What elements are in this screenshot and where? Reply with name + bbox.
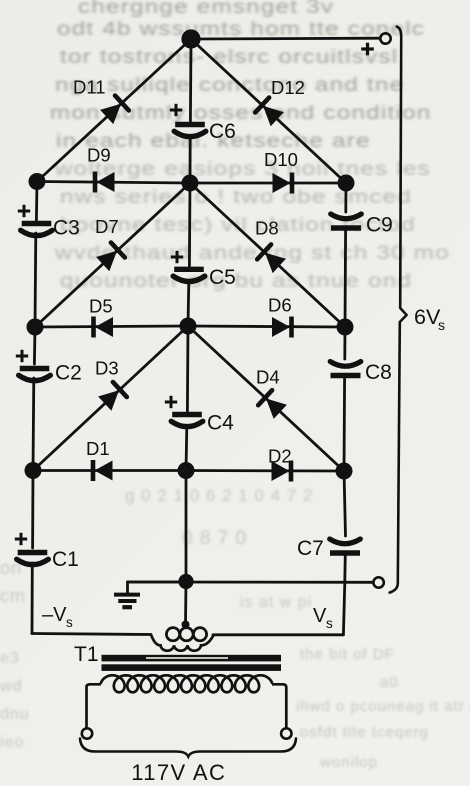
svg-text:D7: D7	[95, 216, 119, 237]
svg-text:T1: T1	[74, 643, 99, 666]
wire diagonal L1 to apex	[37, 39, 191, 182]
plus C3	[18, 210, 30, 213]
svg-text:D4: D4	[256, 367, 280, 388]
wire diagonal R1 to apex	[191, 39, 346, 183]
svg-text:C7: C7	[297, 537, 324, 560]
diode D8	[265, 253, 286, 273]
svg-text:D9: D9	[87, 145, 111, 166]
terminal Vs output	[373, 577, 383, 587]
wire centre column M3 to bottom node	[185, 471, 188, 582]
diode D10	[290, 173, 295, 194]
transformer core lower bar	[102, 664, 282, 671]
brace 6Vs	[390, 27, 407, 593]
plus C6	[170, 109, 182, 112]
node row3 left	[25, 462, 42, 479]
diode D4	[266, 399, 287, 419]
ground stub wire	[128, 581, 187, 584]
svg-text:s: s	[326, 616, 333, 631]
capacitor C1	[18, 550, 48, 555]
capacitor C2	[20, 366, 50, 371]
node bottom centre	[178, 574, 193, 589]
svg-text:C8: C8	[365, 361, 392, 384]
terminal primary right	[281, 728, 291, 738]
wire lower-left rail to secondary	[32, 634, 151, 635]
svg-text:s: s	[66, 615, 73, 630]
svg-text:D3: D3	[95, 358, 119, 379]
wire row2 right segment	[188, 326, 345, 327]
capacitor C8	[330, 362, 361, 367]
svg-text:C9: C9	[366, 214, 393, 237]
capacitor C6	[175, 122, 205, 127]
node row2 left	[27, 319, 44, 336]
node row1 left	[29, 173, 46, 190]
plus C5	[171, 256, 183, 259]
plus C4	[165, 401, 177, 404]
svg-text:C6: C6	[209, 120, 236, 143]
wire diagonal L3 to M2	[33, 326, 188, 471]
wire bottom rail to Vs terminal	[128, 581, 374, 584]
terminal primary left	[82, 728, 92, 738]
plus C1	[15, 538, 27, 541]
svg-text:D6: D6	[268, 295, 292, 316]
svg-text:117V AC: 117V AC	[131, 760, 226, 785]
diode D11	[100, 104, 121, 124]
diode D2	[289, 461, 294, 482]
transformer T1 secondary winding	[151, 635, 214, 651]
diode D3	[98, 390, 119, 410]
transformer T1 primary winding	[87, 684, 101, 729]
node row3 right	[336, 463, 353, 480]
label + top	[361, 47, 374, 50]
wire right column R3 down through C7	[344, 471, 346, 536]
diode D7	[96, 251, 117, 271]
diode D12	[263, 106, 284, 126]
wire centre column M1-M2 through C5	[188, 183, 191, 266]
transformer core upper bar	[102, 655, 282, 662]
svg-text:D8: D8	[255, 218, 279, 239]
svg-text:D10: D10	[264, 149, 298, 170]
ground symbol	[114, 595, 140, 608]
svg-text:C1: C1	[52, 548, 79, 571]
wire row3 left segment	[33, 469, 186, 472]
wire diagonal R3 to M2	[188, 326, 344, 471]
svg-text:C3: C3	[53, 217, 80, 240]
underbrace 117V AC	[80, 739, 296, 757]
svg-text:s: s	[438, 317, 445, 333]
capacitor C3	[22, 221, 52, 226]
svg-text:D5: D5	[89, 296, 113, 317]
svg-text:V: V	[313, 605, 327, 627]
wire row3 right segment	[186, 469, 344, 472]
diode D1	[91, 460, 96, 481]
wire diagonal R2 to M1	[190, 183, 345, 327]
svg-text:D2: D2	[268, 446, 292, 467]
svg-text:D12: D12	[271, 77, 305, 98]
wire right column R1-R2 through C9	[344, 183, 347, 212]
node row2 right	[337, 319, 354, 336]
capacitor C5	[174, 267, 204, 272]
node apex	[181, 29, 200, 48]
wire right column R2-R3 through C8	[343, 327, 346, 359]
diode D6	[289, 317, 294, 338]
svg-text:D11: D11	[73, 77, 106, 98]
terminal + output top	[380, 33, 390, 43]
wire row1 right segment	[190, 182, 346, 185]
wire riser lower rail to bottom rail	[343, 582, 344, 635]
wire centre column M2-M3 through C4	[186, 326, 189, 411]
svg-text:D1: D1	[86, 438, 110, 459]
svg-text:C5: C5	[209, 266, 236, 289]
wire diagonal L2 to M1	[35, 183, 190, 327]
wire row2 left segment	[35, 326, 188, 327]
wire apex to + output terminal	[191, 37, 380, 41]
svg-text:C2: C2	[55, 362, 82, 385]
node row1 right	[338, 175, 355, 192]
svg-text:6V: 6V	[414, 305, 441, 329]
diode D9	[93, 172, 98, 193]
node centre tap	[182, 621, 190, 629]
node row1 centre	[182, 175, 199, 192]
capacitor C4	[172, 412, 202, 417]
svg-text:C4: C4	[207, 412, 234, 435]
wire centre tap	[184, 582, 187, 625]
plus C2	[16, 355, 28, 358]
capacitor C9	[331, 214, 362, 219]
wire left column L2-L3 through C2	[33, 327, 36, 364]
node row3 centre	[178, 462, 195, 479]
wire row1 left segment	[37, 182, 190, 184]
wire lower-right rail from secondary	[213, 633, 343, 636]
capacitor C7	[330, 539, 361, 544]
wire left column L1-L2 through C3	[35, 182, 38, 221]
diode D5	[91, 317, 96, 338]
node row2 centre	[180, 318, 197, 335]
wire centre column apex to M1 through C6	[189, 39, 192, 121]
svg-text:–V: –V	[42, 604, 67, 626]
wire left column L3 down through C1	[31, 471, 34, 549]
